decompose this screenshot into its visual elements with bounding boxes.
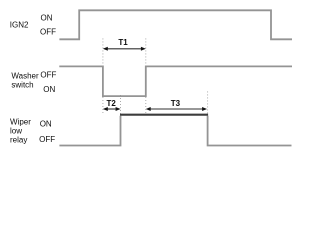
svg-text:OFF: OFF bbox=[39, 135, 55, 144]
svg-text:relay: relay bbox=[10, 136, 27, 145]
svg-text:T3: T3 bbox=[171, 99, 181, 108]
svg-text:T2: T2 bbox=[107, 99, 117, 108]
svg-text:Washer: Washer bbox=[11, 71, 39, 80]
svg-text:ON: ON bbox=[43, 85, 55, 94]
svg-text:OFF: OFF bbox=[40, 27, 56, 36]
svg-text:Wiper: Wiper bbox=[10, 118, 31, 127]
svg-text:switch: switch bbox=[11, 80, 33, 89]
svg-text:low: low bbox=[10, 126, 22, 135]
svg-text:OFF: OFF bbox=[40, 70, 56, 79]
svg-text:IGN2: IGN2 bbox=[10, 20, 29, 29]
svg-text:ON: ON bbox=[40, 119, 52, 128]
svg-text:ON: ON bbox=[41, 14, 53, 23]
svg-text:T1: T1 bbox=[118, 38, 128, 47]
